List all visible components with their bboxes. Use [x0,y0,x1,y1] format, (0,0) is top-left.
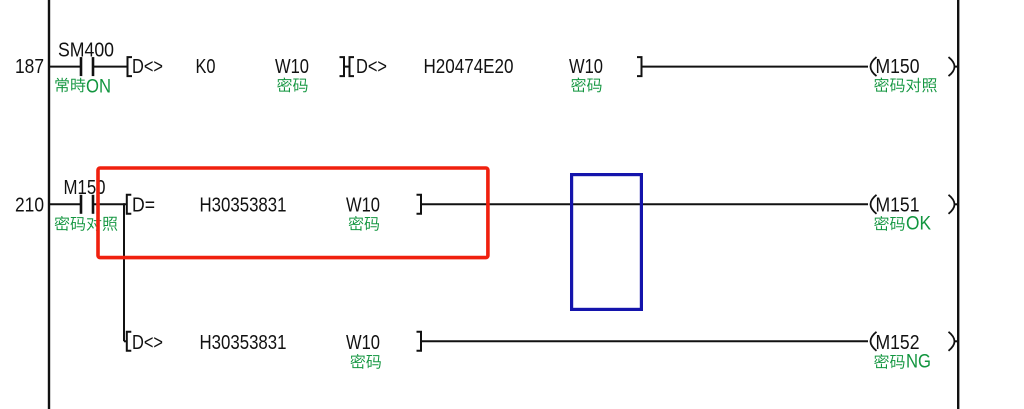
wire [642,66,869,68]
svg-text:SM400: SM400 [58,40,114,62]
svg-text:D<>: D<> [132,56,163,78]
wire [124,340,127,342]
label 密码NG [874,352,931,373]
svg-text:ON: ON [86,77,111,98]
svg-text:NG: NG [906,352,931,373]
left power rail [48,0,50,409]
label 密码 (W10) [349,216,379,231]
wire [344,66,350,68]
svg-text:H20474E20: H20474E20 [424,56,514,78]
wire [93,203,127,205]
branch wire [123,203,125,341]
wire [954,66,958,68]
label 密码对照 [55,216,118,231]
svg-text:W10: W10 [346,332,380,354]
svg-text:H30353831: H30353831 [200,332,287,354]
wire [50,66,81,68]
wire [954,203,958,205]
highlight box red (selection) [98,168,488,258]
svg-text:OK: OK [906,214,931,235]
coil M152 [871,332,955,354]
contact M150 [64,177,106,214]
wire [421,203,868,205]
svg-text:K0: K0 [196,56,216,78]
svg-text:M150: M150 [876,56,920,78]
label 密码对照 [874,78,937,93]
wire [421,340,868,342]
label 常時ON [55,77,111,98]
label 密码OK [874,214,931,235]
svg-text:W10: W10 [569,56,603,78]
coil M151 [871,194,955,216]
label 密码 (W10) [277,78,307,93]
label 密码 (W10) [350,354,380,369]
highlight box blue (cursor) [572,175,642,310]
wire [93,66,127,68]
compare instruction D&lt;&gt; H20474E20 W10 [350,56,642,78]
svg-text:W10: W10 [275,56,309,78]
svg-text:H30353831: H30353831 [200,194,287,216]
svg-text:187: 187 [15,56,44,78]
right power rail [957,0,959,409]
wire [50,203,81,205]
contact SM400 [58,40,114,77]
compare instruction D&lt;&gt; H30353831 W10 [127,332,421,354]
svg-text:D=: D= [132,194,155,216]
svg-text:D<>: D<> [132,332,163,354]
compare instruction D= H30353831 W10 [127,194,421,216]
wire [954,340,958,342]
coil M150 [871,56,955,78]
svg-text:W10: W10 [346,194,380,216]
svg-text:D<>: D<> [356,56,387,78]
svg-text:210: 210 [15,194,44,216]
compare instruction D&lt;&gt; K0 W10 [128,56,345,78]
label 密码 (W10) [571,78,601,93]
